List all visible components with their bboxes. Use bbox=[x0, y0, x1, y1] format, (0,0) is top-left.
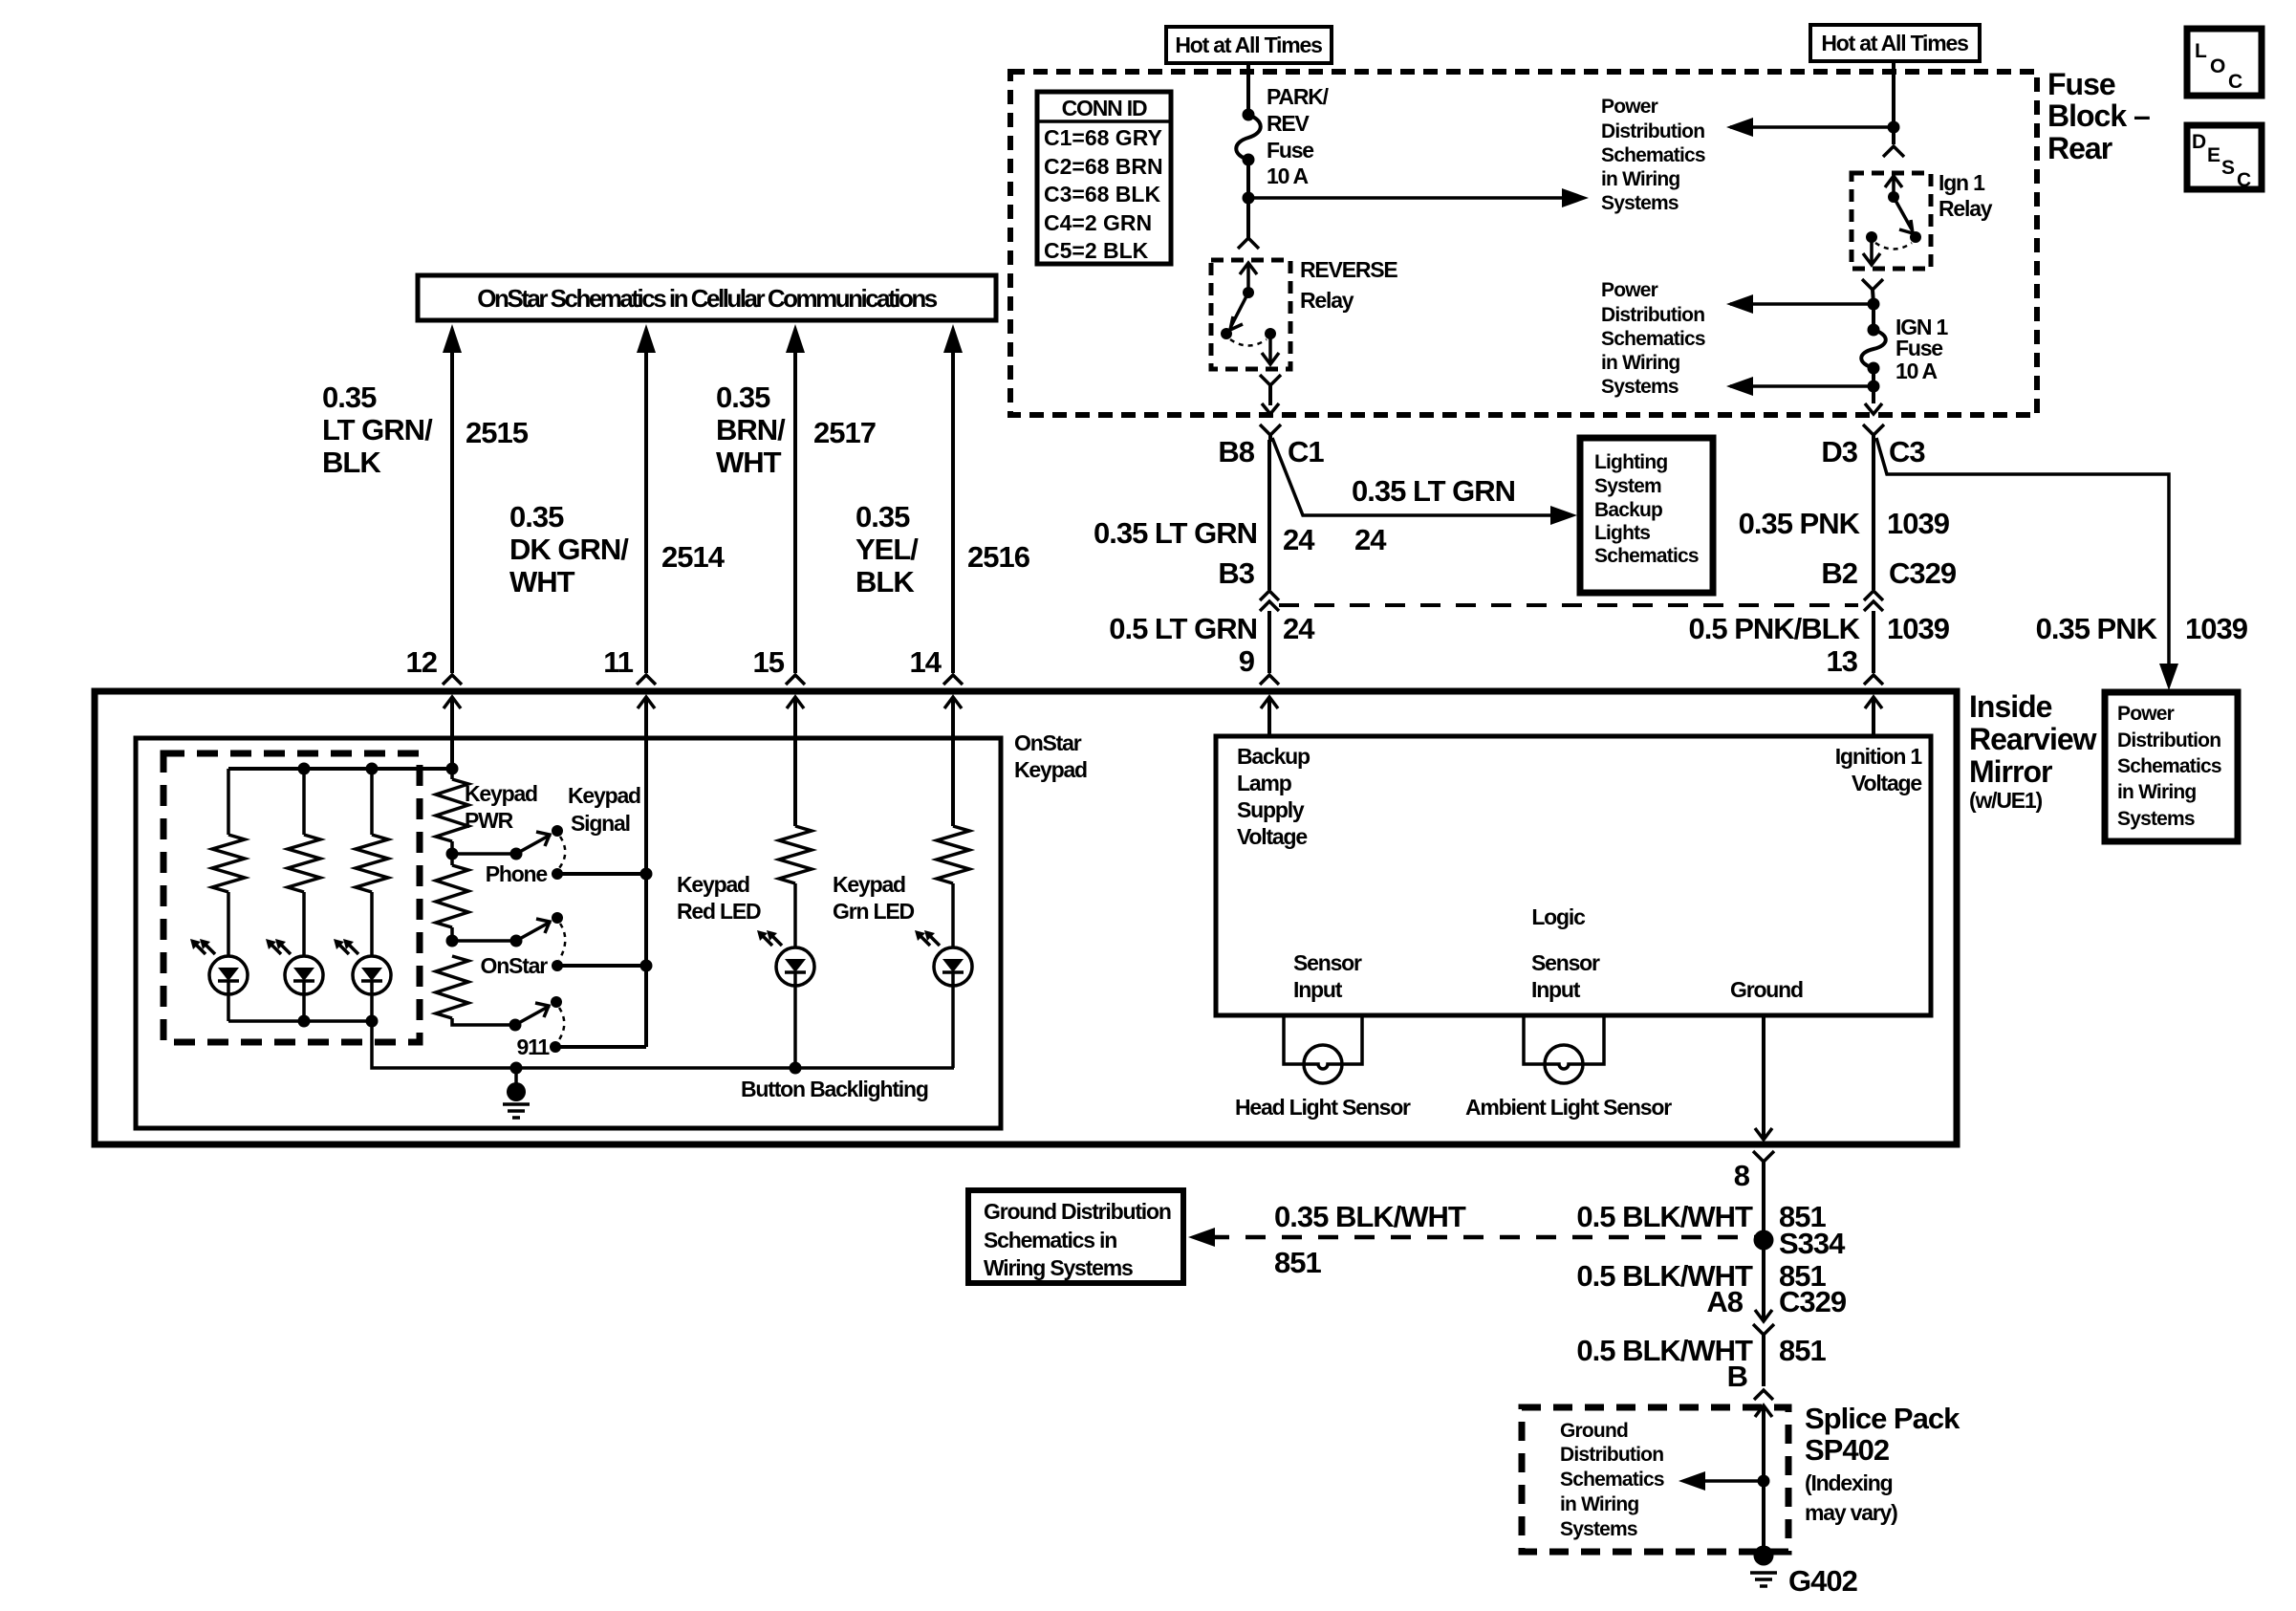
LED 2 emission arrows bbox=[266, 939, 291, 954]
svg-text:in Wiring: in Wiring bbox=[1601, 352, 1679, 374]
svg-text:Signal: Signal bbox=[571, 811, 630, 836]
svg-text:Systems: Systems bbox=[1560, 1518, 1637, 1540]
svg-text:System: System bbox=[1594, 475, 1661, 497]
wire from Hot at All Times to PARK/REV fuse bbox=[1246, 63, 1250, 115]
connector chevron at mirror pin 13 bbox=[1864, 675, 1883, 685]
wire 2515 circuit to OnStar schematics bbox=[443, 324, 462, 673]
wire arrow left to Power Distribution 2 bbox=[1726, 294, 1874, 314]
label Keypad PWR bbox=[465, 781, 537, 833]
svg-text:E: E bbox=[2207, 144, 2220, 166]
svg-text:BLK: BLK bbox=[856, 565, 915, 599]
svg-text:0.35 PNK: 0.35 PNK bbox=[2036, 612, 2158, 645]
svg-text:14: 14 bbox=[910, 645, 942, 679]
svg-text:Relay: Relay bbox=[1300, 288, 1354, 313]
svg-text:1039: 1039 bbox=[1887, 612, 1950, 645]
svg-text:WHT: WHT bbox=[509, 565, 575, 599]
svg-text:Backup: Backup bbox=[1237, 744, 1310, 769]
svg-text:Schematics: Schematics bbox=[1601, 144, 1705, 166]
connector chevron at mirror pin 9 bbox=[1260, 675, 1279, 685]
svg-text:851: 851 bbox=[1274, 1246, 1321, 1279]
node splice pack junction bbox=[1758, 1475, 1770, 1488]
resistor ladder R2 bbox=[436, 854, 468, 941]
connector male chevron into splice pack bbox=[1754, 1390, 1773, 1400]
connector chevrons at OnStar keypad pins 12 11 15 14 bbox=[443, 675, 462, 685]
svg-text:Ground Distribution: Ground Distribution bbox=[984, 1199, 1171, 1224]
label Inside Rearview Mirror (w/UE1) bbox=[1969, 689, 2097, 813]
svg-text:PARK/: PARK/ bbox=[1267, 84, 1330, 109]
wire into splice pack with up arrow bbox=[1755, 1405, 1772, 1481]
svg-text:DK GRN/: DK GRN/ bbox=[509, 533, 629, 566]
node keypad PWR bbox=[446, 763, 459, 775]
svg-text:Ground: Ground bbox=[1730, 977, 1803, 1002]
svg-text:2515: 2515 bbox=[466, 416, 529, 449]
svg-text:in Wiring: in Wiring bbox=[1601, 168, 1679, 190]
label Ignition 1 Voltage bbox=[1835, 744, 1923, 795]
svg-text:Splice Pack: Splice Pack bbox=[1805, 1402, 1960, 1435]
svg-text:Ign 1: Ign 1 bbox=[1939, 170, 1985, 195]
svg-text:G402: G402 bbox=[1788, 1564, 1857, 1598]
svg-text:B3: B3 bbox=[1218, 556, 1254, 590]
wire LED return bus bbox=[228, 994, 379, 1028]
svg-text:0.35: 0.35 bbox=[322, 381, 377, 414]
box OnStar Schematics in Cellular Communications bbox=[418, 275, 996, 320]
label Keypad Red LED bbox=[677, 872, 761, 924]
LED backlight 1 bbox=[209, 956, 248, 994]
connector A8/C329 arrow and female bbox=[1753, 1310, 1774, 1386]
svg-text:B: B bbox=[1727, 1360, 1747, 1393]
label Sensor Input (ambient) bbox=[1531, 950, 1600, 1002]
switch OnStar bbox=[452, 912, 565, 971]
svg-text:10 A: 10 A bbox=[1267, 163, 1309, 188]
fuse IGN 1 10 A bbox=[1861, 304, 1948, 383]
svg-text:2514: 2514 bbox=[661, 540, 726, 574]
node ign branch 1 bbox=[1888, 121, 1900, 134]
wire tap 0.35 PNK to power distribution bbox=[1876, 438, 2178, 690]
text Ground Distribution Schematics in Wiring Systems (splice) bbox=[1560, 1420, 1664, 1540]
ground G402 symbol bbox=[1750, 1546, 1777, 1587]
svg-text:Schematics: Schematics bbox=[1594, 545, 1699, 567]
box Hot at All Times (right) bbox=[1810, 25, 1980, 61]
svg-text:Wiring Systems: Wiring Systems bbox=[984, 1255, 1133, 1280]
svg-text:OnStar Schematics in Cellular: OnStar Schematics in Cellular Communicat… bbox=[477, 284, 938, 313]
box Ground Distribution Schematics in Wiring Systems bbox=[968, 1190, 1183, 1283]
svg-text:Logic: Logic bbox=[1531, 904, 1586, 929]
wire 2516 circuit to OnStar schematics bbox=[943, 324, 963, 673]
svg-text:0.5 BLK/WHT: 0.5 BLK/WHT bbox=[1576, 1200, 1753, 1233]
svg-text:Relay: Relay bbox=[1939, 196, 1993, 221]
svg-text:OnStar: OnStar bbox=[481, 953, 549, 978]
relay Ign 1 output arrow down bbox=[1863, 237, 1880, 265]
wire down arrow through fuse block border at B8 bbox=[1262, 403, 1279, 414]
svg-text:Systems: Systems bbox=[2117, 808, 2195, 830]
box mirror module bbox=[1216, 736, 1931, 1015]
wire mirror ground to outer box edge bbox=[1755, 1015, 1772, 1140]
svg-text:Sensor: Sensor bbox=[1531, 950, 1600, 975]
wire from Hot at All Times 2 down bbox=[1892, 61, 1895, 127]
resistor backlight LED 2 bbox=[288, 769, 320, 956]
svg-text:Input: Input bbox=[1293, 977, 1343, 1002]
svg-text:O: O bbox=[2210, 55, 2225, 77]
wire 2514 circuit to OnStar schematics bbox=[637, 324, 656, 673]
svg-text:13: 13 bbox=[1827, 644, 1858, 678]
ground symbol keypad bbox=[503, 1068, 530, 1118]
wire D3 to B2 connector bbox=[1872, 440, 1875, 590]
dashed box button LEDs bbox=[163, 753, 420, 1042]
svg-text:(Indexing: (Indexing bbox=[1805, 1470, 1893, 1495]
svg-text:0.35: 0.35 bbox=[716, 381, 770, 414]
wire arrow left to Power Distribution 1 bbox=[1726, 118, 1894, 137]
svg-text:Fuse: Fuse bbox=[2047, 67, 2115, 101]
wire LED return to ground bus bbox=[372, 1021, 516, 1068]
wire ground bus with ground tap bbox=[510, 1062, 955, 1075]
svg-text:Fuse: Fuse bbox=[1267, 138, 1313, 163]
svg-text:C329: C329 bbox=[1779, 1285, 1847, 1318]
svg-text:LT GRN/: LT GRN/ bbox=[322, 413, 433, 446]
svg-text:(w/UE1): (w/UE1) bbox=[1969, 788, 2042, 813]
wire pin 12 into keypad with arrow bbox=[444, 697, 461, 769]
svg-text:SP402: SP402 bbox=[1805, 1433, 1889, 1467]
node phone tap bbox=[446, 848, 459, 860]
fuse PARK/REV 10 A bbox=[1236, 84, 1329, 188]
svg-text:Block –: Block – bbox=[2047, 98, 2150, 133]
svg-text:REV: REV bbox=[1267, 111, 1310, 136]
svg-text:CONN ID: CONN ID bbox=[1062, 96, 1147, 120]
label 0.35 DK GRN/ WHT bbox=[509, 500, 629, 599]
svg-text:in Wiring: in Wiring bbox=[2117, 781, 2196, 803]
label Sensor Input (head) bbox=[1293, 950, 1362, 1002]
svg-text:24: 24 bbox=[1354, 523, 1387, 556]
connector female B8/C1 below border bbox=[1260, 425, 1281, 442]
wire S334 to C329 bbox=[1762, 1240, 1765, 1320]
svg-text:Lighting: Lighting bbox=[1594, 451, 1667, 473]
wire fuse to branch node bbox=[1246, 160, 1250, 240]
LED keypad grn bbox=[934, 947, 972, 986]
svg-text:Keypad: Keypad bbox=[833, 872, 905, 897]
label Fuse Block - Rear bbox=[2047, 67, 2150, 165]
relay Ign 1 dashed arc bbox=[1875, 243, 1912, 250]
connector male chevron above REVERSE relay bbox=[1238, 238, 1259, 249]
svg-text:Ground: Ground bbox=[1560, 1420, 1628, 1442]
svg-text:C2=68 BRN: C2=68 BRN bbox=[1044, 154, 1163, 179]
node LED bus taps bbox=[298, 763, 311, 775]
wire LED 1 to return bus bbox=[227, 994, 230, 1021]
svg-text:Backup: Backup bbox=[1594, 499, 1662, 521]
svg-text:Rearview: Rearview bbox=[1969, 722, 2097, 756]
node branch to power distribution bbox=[1243, 192, 1255, 205]
svg-text:Keypad: Keypad bbox=[1014, 757, 1087, 782]
svg-text:851: 851 bbox=[1779, 1334, 1826, 1367]
svg-text:15: 15 bbox=[753, 645, 785, 679]
svg-text:in Wiring: in Wiring bbox=[1560, 1493, 1638, 1515]
wire pin 15 into keypad with arrow bbox=[787, 697, 804, 826]
wire 911 signal to pin 11 bbox=[555, 1045, 646, 1049]
svg-text:Rear: Rear bbox=[2047, 131, 2112, 165]
wire onstar signal to pin 11 bbox=[557, 960, 653, 972]
svg-text:Power: Power bbox=[2117, 703, 2175, 725]
svg-text:Schematics: Schematics bbox=[2117, 755, 2221, 777]
svg-text:10 A: 10 A bbox=[1895, 359, 1938, 383]
svg-text:Keypad: Keypad bbox=[677, 872, 749, 897]
svg-text:S: S bbox=[2221, 157, 2235, 179]
relay REVERSE output arrow down bbox=[1262, 334, 1279, 364]
wire arrow left to Power Distribution 3 bbox=[1726, 377, 1874, 396]
svg-text:0.35: 0.35 bbox=[856, 500, 910, 533]
svg-text:may vary): may vary) bbox=[1805, 1500, 1897, 1525]
label Ign 1 Relay bbox=[1939, 170, 1993, 221]
wire arrow left to ground distribution (splice pack) bbox=[1679, 1471, 1764, 1491]
svg-text:2516: 2516 bbox=[967, 540, 1030, 574]
svg-text:Distribution: Distribution bbox=[1601, 120, 1704, 142]
svg-text:Phone: Phone bbox=[486, 861, 548, 886]
svg-text:Ambient Light Sensor: Ambient Light Sensor bbox=[1465, 1095, 1672, 1120]
label 0.35 LT GRN/ BLK bbox=[322, 381, 433, 479]
svg-text:C5=2 BLK: C5=2 BLK bbox=[1044, 238, 1149, 263]
svg-text:BLK: BLK bbox=[322, 446, 381, 479]
svg-text:Distribution: Distribution bbox=[1560, 1444, 1663, 1466]
svg-text:B8: B8 bbox=[1218, 435, 1254, 468]
svg-text:D3: D3 bbox=[1821, 435, 1857, 468]
svg-text:Lamp: Lamp bbox=[1237, 771, 1292, 795]
wire pin 13 into mirror with arrow bbox=[1865, 697, 1882, 736]
ambient light sensor stubs bbox=[1524, 1015, 1604, 1064]
svg-text:Schematics in: Schematics in bbox=[984, 1228, 1116, 1252]
label 0.35 BRN/ WHT bbox=[716, 381, 786, 479]
svg-text:12: 12 bbox=[406, 645, 437, 679]
svg-text:24: 24 bbox=[1283, 612, 1315, 645]
text Power Distribution Schematics block 2 bbox=[1601, 279, 1705, 398]
dashed box Splice Pack SP402 bbox=[1522, 1407, 1788, 1552]
svg-text:Red LED: Red LED bbox=[677, 899, 761, 924]
svg-text:Systems: Systems bbox=[1601, 192, 1679, 214]
svg-text:PWR: PWR bbox=[465, 808, 514, 833]
box OnStar Keypad bbox=[136, 738, 1001, 1128]
svg-text:C4=2 GRN: C4=2 GRN bbox=[1044, 210, 1152, 235]
wire 2517 circuit to OnStar schematics bbox=[786, 324, 805, 673]
splice S334 bbox=[1754, 1227, 1847, 1260]
svg-text:Mirror: Mirror bbox=[1969, 754, 2052, 789]
label Keypad Grn LED bbox=[833, 872, 914, 924]
relay Ign 1 contact arrow up bbox=[1885, 176, 1902, 197]
wire 24 circuit into mirror bbox=[1267, 611, 1271, 673]
svg-text:0.35 BLK/WHT: 0.35 BLK/WHT bbox=[1274, 1200, 1466, 1233]
svg-text:9: 9 bbox=[1239, 644, 1255, 678]
wire branch arrow right to Power Distribution Schematics bbox=[1248, 188, 1589, 207]
svg-text:1039: 1039 bbox=[1887, 507, 1950, 540]
wire down arrow through fuse block border at D3 bbox=[1865, 403, 1882, 414]
resistor keypad grn LED bbox=[937, 826, 969, 947]
svg-text:0.35 LT GRN: 0.35 LT GRN bbox=[1094, 516, 1257, 550]
svg-text:Distribution: Distribution bbox=[2117, 729, 2220, 751]
wire 1039 circuit into mirror bbox=[1872, 611, 1875, 673]
resistor backlight LED 1 bbox=[212, 769, 245, 956]
wire tap to lighting system backup lights bbox=[1272, 438, 1577, 525]
svg-text:Ignition 1: Ignition 1 bbox=[1835, 744, 1923, 769]
box Power Distribution Schematics in Wiring Systems (right) bbox=[2105, 692, 2238, 841]
svg-text:0.35 LT GRN: 0.35 LT GRN bbox=[1352, 474, 1515, 508]
svg-text:2517: 2517 bbox=[813, 416, 876, 449]
label OnStar Keypad bbox=[1014, 730, 1087, 782]
relay REVERSE contact arrow up bbox=[1240, 263, 1257, 293]
svg-text:B2: B2 bbox=[1821, 556, 1857, 590]
svg-text:11: 11 bbox=[603, 645, 634, 679]
svg-text:Power: Power bbox=[1601, 279, 1658, 301]
svg-text:Schematics: Schematics bbox=[1601, 328, 1705, 350]
connector inline B2/C329 double chevron bbox=[1864, 591, 1883, 611]
resistor keypad red LED bbox=[779, 826, 812, 947]
connector female D3/C3 below border bbox=[1863, 425, 1884, 442]
svg-text:C1: C1 bbox=[1288, 435, 1324, 468]
box Lighting System Backup Lights Schematics bbox=[1580, 438, 1713, 593]
svg-text:REVERSE: REVERSE bbox=[1300, 257, 1397, 282]
svg-text:1039: 1039 bbox=[2185, 612, 2248, 645]
svg-text:Power: Power bbox=[1601, 96, 1658, 118]
wire pin 9 into mirror with arrow bbox=[1261, 697, 1278, 736]
box inside rearview mirror outer bbox=[95, 691, 1957, 1144]
node onstar tap bbox=[446, 935, 459, 947]
svg-text:Voltage: Voltage bbox=[1237, 824, 1307, 849]
svg-text:L: L bbox=[2195, 40, 2207, 62]
switch Phone bbox=[452, 825, 565, 880]
svg-text:8: 8 bbox=[1734, 1159, 1750, 1192]
label Backup Lamp Supply Voltage bbox=[1237, 744, 1310, 849]
svg-text:Sensor: Sensor bbox=[1293, 950, 1362, 975]
svg-text:0.5 LT GRN: 0.5 LT GRN bbox=[1109, 612, 1257, 645]
box DESC bbox=[2187, 125, 2262, 191]
label Splice Pack SP402 (Indexing may vary) bbox=[1805, 1402, 1960, 1525]
node ign branch 2 bbox=[1868, 298, 1880, 311]
relay Ign 1 dashed box bbox=[1852, 173, 1931, 269]
svg-text:Grn LED: Grn LED bbox=[833, 899, 914, 924]
wire grn LED to ground bus bbox=[951, 986, 955, 1068]
svg-text:C: C bbox=[2228, 71, 2242, 93]
fuse block Fuse Block - Rear dashed enclosure bbox=[1010, 72, 2037, 415]
svg-text:Fuse: Fuse bbox=[1895, 336, 1942, 360]
wire pin 11 into keypad with arrow bbox=[638, 697, 655, 1047]
svg-text:Inside: Inside bbox=[1969, 689, 2052, 724]
resistor ladder R1 bbox=[436, 769, 468, 854]
label Keypad Signal bbox=[568, 783, 640, 836]
svg-text:Head Light Sensor: Head Light Sensor bbox=[1235, 1095, 1411, 1120]
relay Ign 1 pivot and blade bbox=[1866, 191, 1921, 243]
connector female below REVERSE relay bbox=[1260, 375, 1281, 405]
grn LED emission arrows bbox=[915, 930, 940, 946]
dashed wire to ground distribution schematics bbox=[1188, 1228, 1755, 1247]
red LED emission arrows bbox=[757, 930, 782, 946]
LED keypad red bbox=[776, 947, 814, 986]
svg-text:Lights: Lights bbox=[1594, 522, 1650, 544]
svg-text:Supply: Supply bbox=[1237, 797, 1305, 822]
svg-text:C329: C329 bbox=[1889, 556, 1957, 590]
svg-text:911: 911 bbox=[516, 1034, 550, 1059]
connector female below mirror pin 8 bbox=[1753, 1151, 1774, 1240]
svg-text:Input: Input bbox=[1531, 977, 1581, 1002]
switch 911 bbox=[509, 996, 565, 1053]
relay REVERSE pivot and blade bbox=[1221, 287, 1276, 339]
wire splice junction to G402 bbox=[1762, 1481, 1765, 1549]
svg-text:S334: S334 bbox=[1779, 1227, 1846, 1260]
svg-text:Schematics: Schematics bbox=[1560, 1469, 1664, 1491]
connector female below Ign 1 relay bbox=[1862, 279, 1883, 304]
connector inline B3 double chevron bbox=[1260, 591, 1279, 611]
svg-text:YEL/: YEL/ bbox=[856, 533, 919, 566]
dashed harness line B3 to B2 bbox=[1279, 603, 1858, 607]
wire B8 to B3 connector bbox=[1267, 440, 1271, 590]
svg-text:Keypad: Keypad bbox=[465, 781, 537, 806]
connector table CONN ID bbox=[1037, 92, 1171, 264]
LED 3 emission arrows bbox=[334, 939, 358, 954]
LED 1 emission arrows bbox=[190, 939, 215, 954]
svg-text:Hot at All Times: Hot at All Times bbox=[1821, 31, 1968, 55]
box LOC bbox=[2187, 29, 2262, 96]
relay REVERSE dashed arc bbox=[1230, 339, 1267, 346]
svg-text:0.5 PNK/BLK: 0.5 PNK/BLK bbox=[1689, 612, 1861, 645]
svg-text:WHT: WHT bbox=[716, 446, 782, 479]
svg-text:C: C bbox=[2237, 169, 2251, 191]
box Hot at All Times (left) bbox=[1166, 27, 1332, 63]
svg-text:C1=68 GRY: C1=68 GRY bbox=[1044, 125, 1162, 150]
label REVERSE Relay bbox=[1300, 257, 1397, 313]
wire phone signal to pin 11 bbox=[557, 868, 653, 881]
LED backlight 2 bbox=[285, 956, 323, 994]
text Power Distribution Schematics block 1 bbox=[1601, 96, 1705, 214]
svg-text:24: 24 bbox=[1283, 523, 1315, 556]
svg-text:OnStar: OnStar bbox=[1014, 730, 1082, 755]
svg-text:Systems: Systems bbox=[1601, 376, 1679, 398]
svg-text:C3=68 BLK: C3=68 BLK bbox=[1044, 182, 1160, 207]
svg-text:Distribution: Distribution bbox=[1601, 304, 1704, 326]
wire LED supply bus bbox=[228, 767, 452, 771]
wire pin 14 into keypad with arrow bbox=[944, 697, 962, 826]
svg-text:BRN/: BRN/ bbox=[716, 413, 786, 446]
lamp head light sensor bbox=[1304, 1045, 1342, 1083]
svg-text:D: D bbox=[2192, 131, 2206, 153]
svg-text:A8: A8 bbox=[1706, 1285, 1743, 1318]
node ign branch 3 bbox=[1868, 368, 1880, 403]
head light sensor stubs bbox=[1284, 1015, 1362, 1064]
relay REVERSE Relay dashed box bbox=[1211, 260, 1290, 369]
label 0.35 YEL/ BLK bbox=[856, 500, 919, 599]
lamp ambient light sensor bbox=[1545, 1045, 1583, 1083]
LED backlight 3 bbox=[353, 956, 391, 994]
wire LED 2 to return bus bbox=[302, 994, 306, 1021]
svg-text:C3: C3 bbox=[1889, 435, 1925, 468]
resistor ladder R3 bbox=[436, 956, 515, 1025]
connector male chevron above Ign 1 relay bbox=[1883, 146, 1904, 157]
svg-text:Keypad: Keypad bbox=[568, 783, 640, 808]
svg-text:Voltage: Voltage bbox=[1852, 771, 1921, 795]
resistor backlight LED 3 bbox=[356, 769, 388, 956]
svg-text:0.35: 0.35 bbox=[509, 500, 564, 533]
svg-text:Hot at All Times: Hot at All Times bbox=[1175, 33, 1322, 57]
wire red LED to ground bus bbox=[790, 986, 802, 1075]
svg-text:Button Backlighting: Button Backlighting bbox=[741, 1077, 928, 1101]
svg-text:0.35 PNK: 0.35 PNK bbox=[1739, 507, 1861, 540]
